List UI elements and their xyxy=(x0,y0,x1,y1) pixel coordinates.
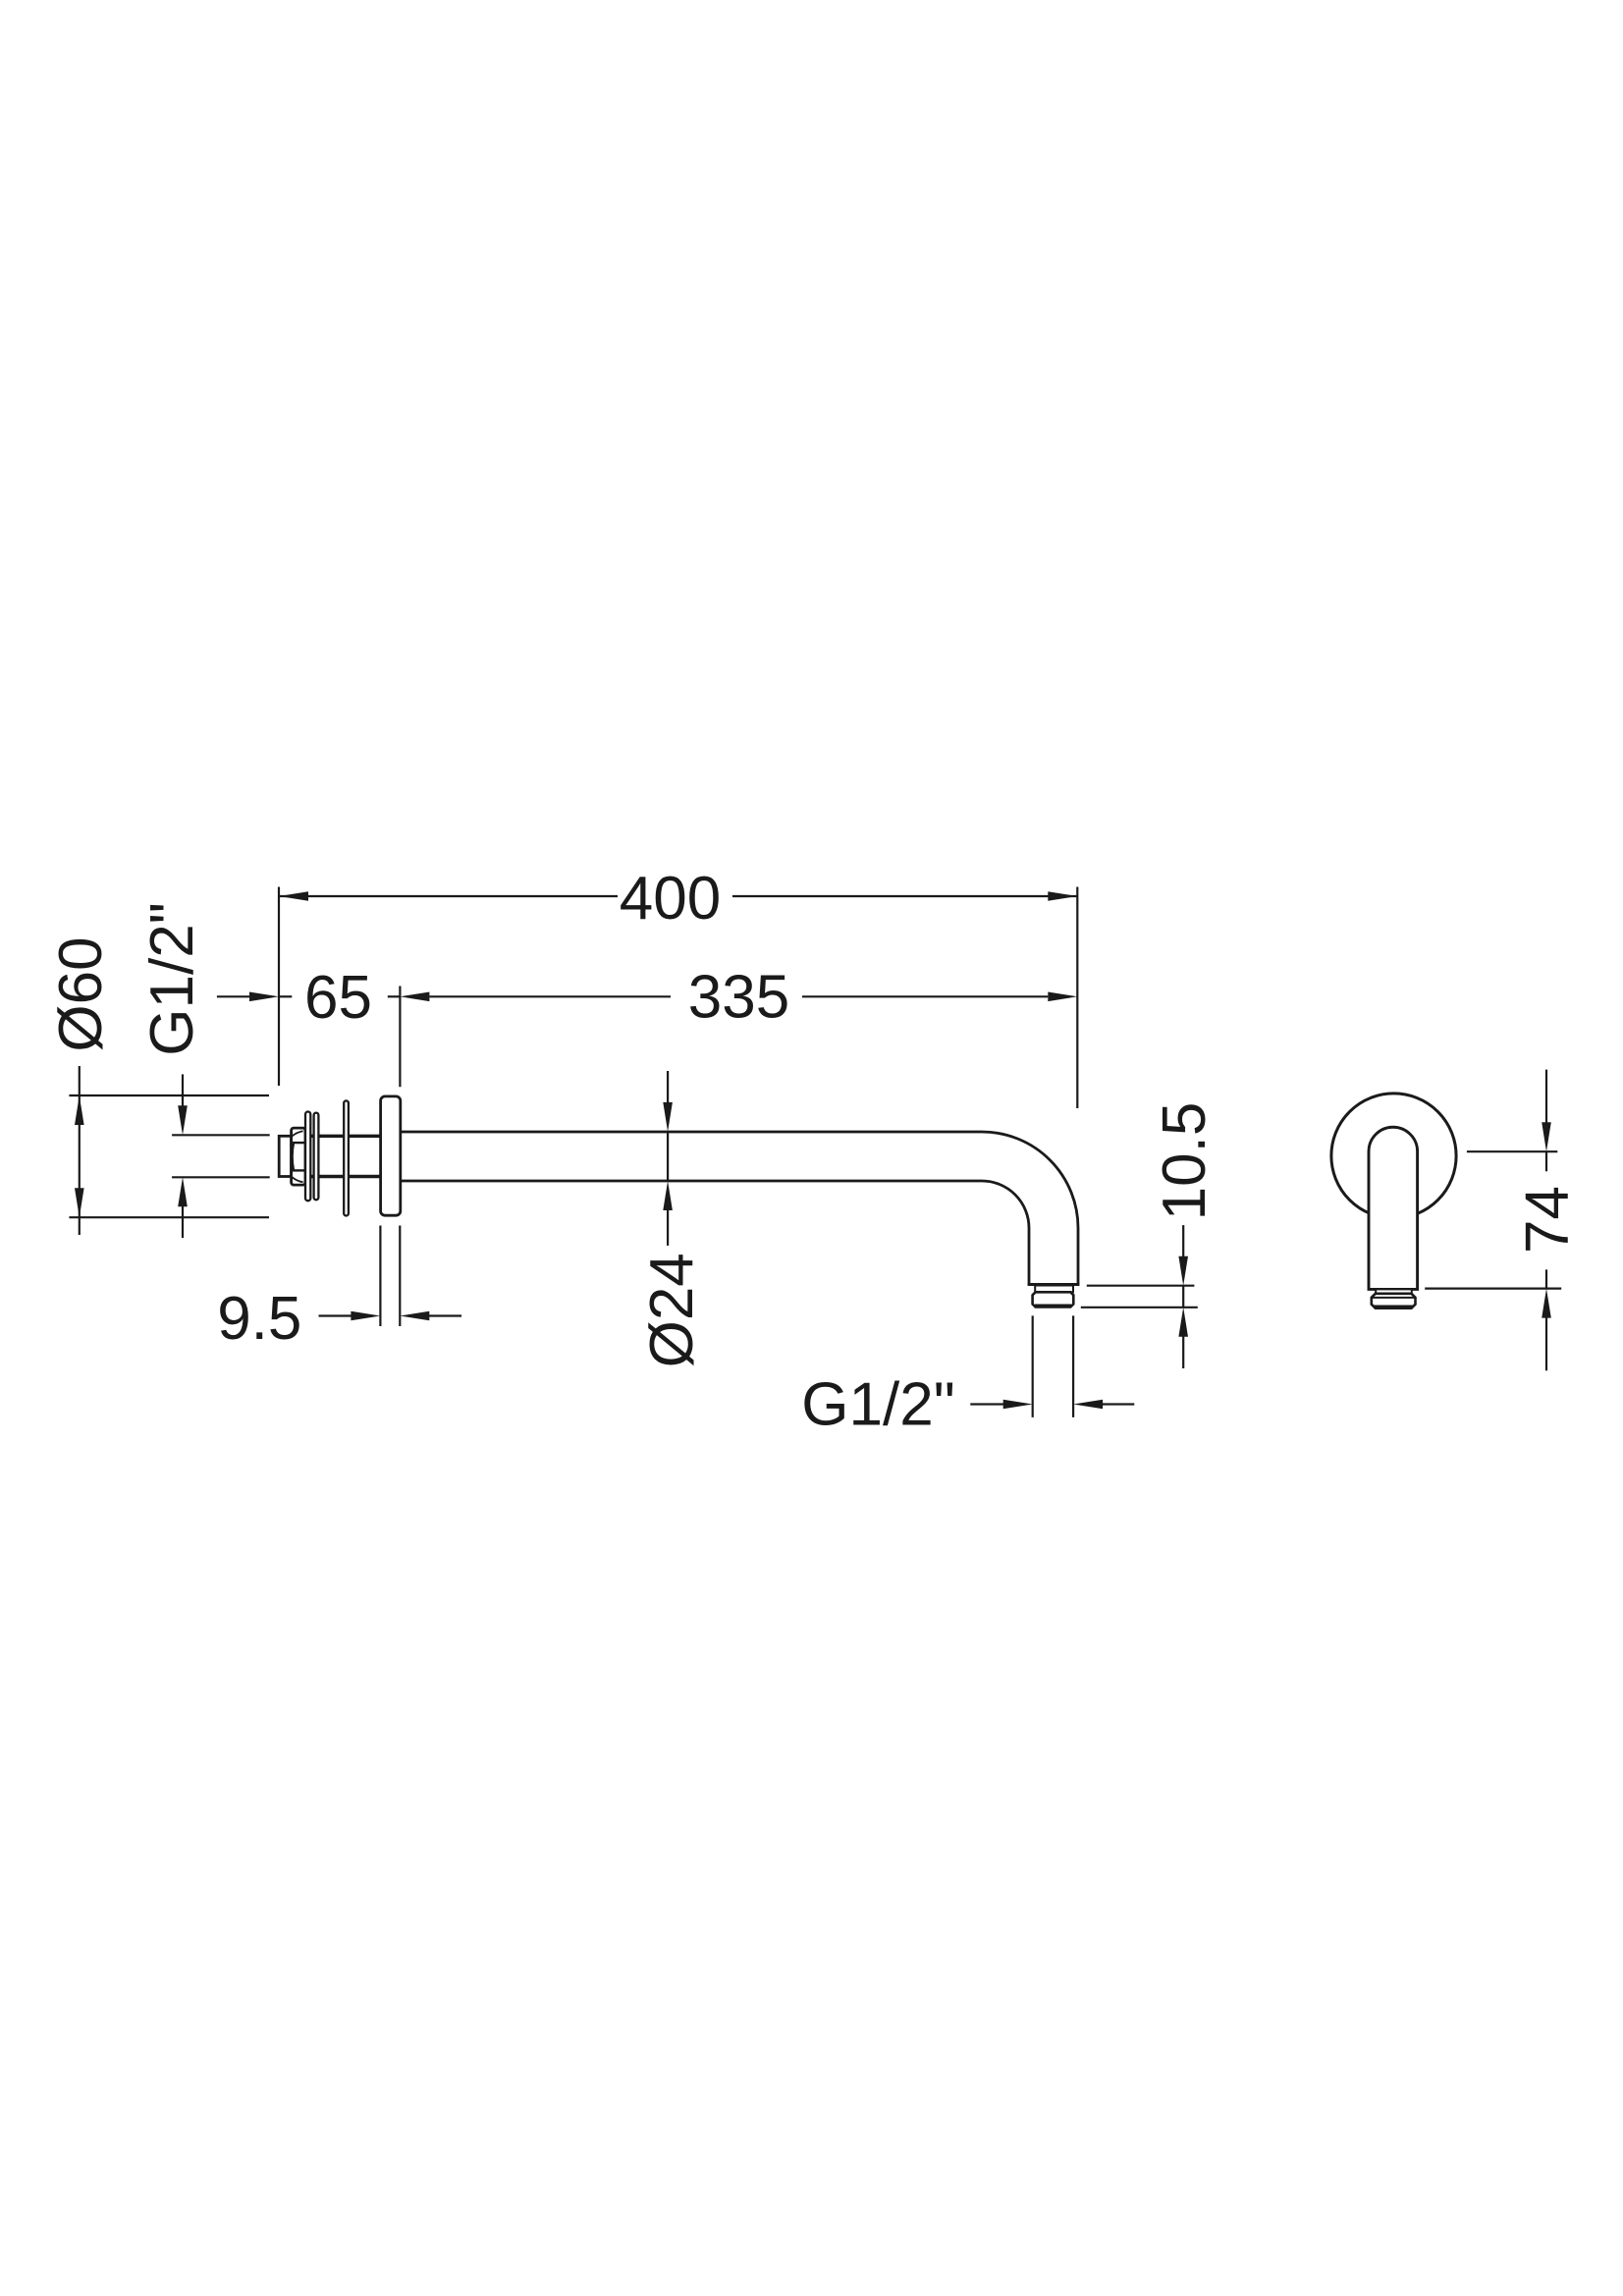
side view: wall flange xyxy=(381,1096,401,1215)
side view: hex nut xyxy=(292,1128,305,1185)
svg-text:G1/2": G1/2" xyxy=(801,1371,954,1439)
front view: outlet thread bottom heavy edge xyxy=(1375,1305,1414,1308)
74 dimension line with arrowheads xyxy=(1545,1070,1547,1125)
G1/2 outlet extension lines xyxy=(1032,1315,1034,1417)
side view: washer 3 (wall seal plate) xyxy=(344,1100,349,1215)
G1/2 outlet dimension arrows xyxy=(970,1403,1005,1405)
side view: inlet threaded end xyxy=(279,1136,291,1176)
extension line right (400/335 at elbow outer edge) xyxy=(1076,887,1078,1109)
10.5 extension lines at spout tip xyxy=(1087,1285,1195,1287)
Ø60 extension lines xyxy=(69,1095,269,1096)
9.5 extension lines below flange xyxy=(379,1226,381,1327)
74 extension lines (front view) xyxy=(1467,1150,1557,1152)
side view: shower arm tube inner contour xyxy=(401,1181,1029,1285)
Ø60 dimension line with arrowheads xyxy=(79,1066,81,1235)
front view: arm tube silhouette xyxy=(1369,1127,1418,1289)
dimension 400 line xyxy=(279,895,618,897)
svg-text:74: 74 xyxy=(1514,1186,1582,1254)
side view: outlet thread neck xyxy=(1035,1286,1073,1293)
front view: outlet thread neck xyxy=(1376,1289,1412,1293)
9.5 dimension arrows xyxy=(319,1314,354,1316)
svg-text:Ø24: Ø24 xyxy=(638,1253,706,1367)
svg-text:65: 65 xyxy=(304,964,372,1032)
side view: washer 2 xyxy=(314,1113,319,1201)
svg-text:10.5: 10.5 xyxy=(1151,1102,1218,1221)
dimension 400 right arrowhead xyxy=(1048,891,1077,901)
10.5 dimension line with arrowheads xyxy=(1182,1225,1184,1258)
front view: outlet thread body xyxy=(1372,1294,1416,1308)
svg-text:9.5: 9.5 xyxy=(217,1285,301,1353)
svg-text:335: 335 xyxy=(688,964,789,1032)
G1/2 inlet extension lines xyxy=(172,1134,270,1136)
side view: shower arm tube outer contour xyxy=(401,1132,1078,1285)
dimension 400 left arrowhead xyxy=(279,891,308,901)
extension line left (400/65 datum at wall face) xyxy=(278,887,280,1087)
side view: outlet thread body xyxy=(1033,1292,1074,1307)
side view: washer 1 xyxy=(305,1112,310,1201)
dimension 65 outside arrow (left) xyxy=(217,995,252,997)
side view: G1/2 inlet pipe lines to wall flange xyxy=(305,1135,381,1138)
front view: wall flange circle xyxy=(1331,1094,1456,1218)
side view: outlet thread bottom heavy edge xyxy=(1035,1305,1071,1308)
side view: tube end cap line xyxy=(1028,1283,1080,1286)
dimension 335 line with arrowheads xyxy=(388,995,401,997)
svg-text:400: 400 xyxy=(620,865,721,933)
G1/2 inlet dimension arrows (outside) xyxy=(182,1074,184,1108)
Ø24 dimension line with arrowheads xyxy=(667,1071,669,1105)
svg-text:G1/2": G1/2" xyxy=(138,902,206,1055)
svg-text:Ø60: Ø60 xyxy=(47,936,115,1051)
front view: outlet thread inner line xyxy=(1373,1297,1415,1299)
extension line middle (65/335 at flange face) xyxy=(399,987,401,1088)
hex nut chamfer arcs xyxy=(293,1143,294,1170)
